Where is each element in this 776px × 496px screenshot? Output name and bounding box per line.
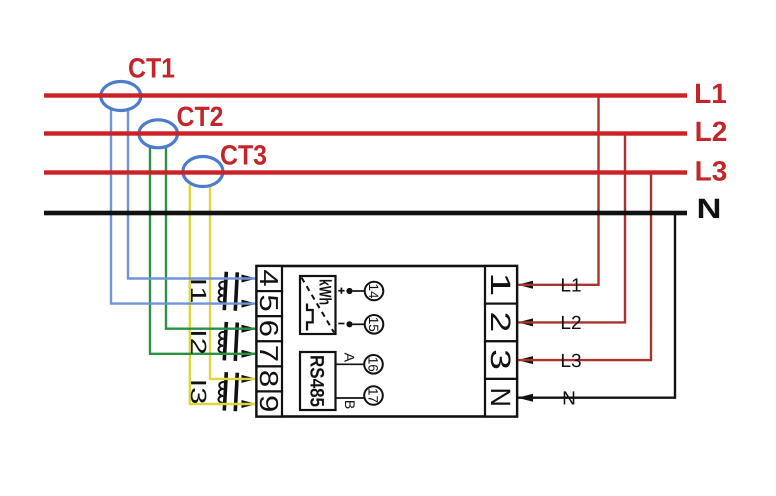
svg-text:B: B [342,400,358,409]
svg-text:1: 1 [485,272,516,296]
svg-text:15: 15 [366,317,381,332]
svg-text:17: 17 [366,388,381,403]
svg-text:I1: I1 [186,278,211,304]
svg-text:2: 2 [485,312,516,333]
svg-text:L3: L3 [695,155,728,186]
svg-text:L1: L1 [560,276,581,297]
svg-text:L3: L3 [560,351,581,372]
svg-text:7: 7 [254,345,284,362]
svg-text:L1: L1 [694,78,727,109]
svg-text:N: N [562,389,576,410]
svg-text:RS485: RS485 [306,355,328,407]
svg-text:9: 9 [254,395,284,412]
svg-text:I2: I2 [186,329,211,355]
svg-text:N: N [485,387,516,407]
svg-text:6: 6 [254,320,284,337]
svg-text:N: N [697,193,722,224]
svg-text:3: 3 [485,349,516,370]
svg-text:kWh: kWh [316,279,335,305]
svg-text:I3: I3 [186,379,211,405]
svg-text:L2: L2 [560,313,581,334]
svg-text:8: 8 [254,370,284,387]
svg-text:A: A [341,353,357,363]
svg-text:5: 5 [254,294,284,311]
svg-text:CT3: CT3 [220,140,267,171]
svg-text:16: 16 [366,357,381,372]
svg-text:CT1: CT1 [128,53,175,84]
svg-text:CT2: CT2 [177,101,224,132]
svg-text:14: 14 [366,283,381,299]
svg-text:L2: L2 [695,116,728,147]
svg-text:4: 4 [254,269,284,286]
